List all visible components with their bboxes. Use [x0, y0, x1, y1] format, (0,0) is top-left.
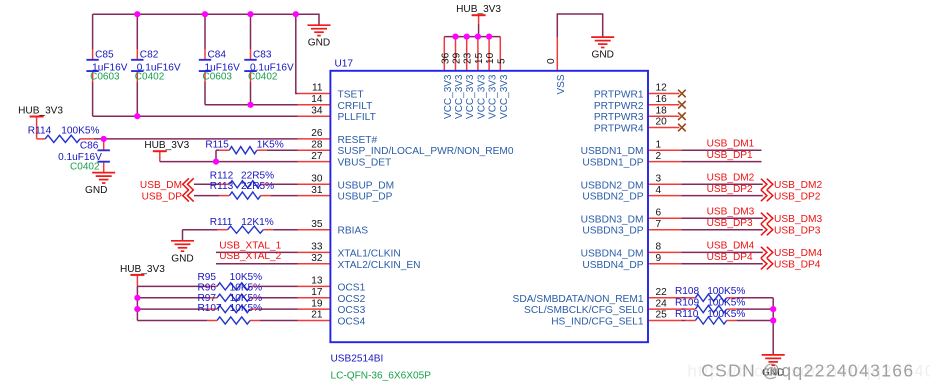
- svg-text:100K5%: 100K5%: [61, 125, 99, 136]
- svg-text:32: 32: [311, 253, 323, 264]
- svg-text:0: 0: [546, 58, 557, 64]
- svg-text:R108: R108: [675, 286, 700, 297]
- svg-text:CSDN @qq2224043166: CSDN @qq2224043166: [701, 360, 914, 380]
- svg-text:9: 9: [656, 253, 662, 264]
- svg-text:PRTPWR1: PRTPWR1: [594, 90, 644, 101]
- svg-text:C0402: C0402: [248, 71, 278, 82]
- svg-text:USBUP_DM: USBUP_DM: [338, 180, 395, 191]
- svg-text:C83: C83: [253, 49, 272, 60]
- svg-text:SDA/SMBDATA/NON_REM1: SDA/SMBDATA/NON_REM1: [513, 294, 644, 305]
- svg-text:HS_IND/CFG_SEL1: HS_IND/CFG_SEL1: [551, 317, 644, 328]
- svg-text:USB_DM: USB_DM: [140, 180, 182, 191]
- svg-text:C82: C82: [140, 49, 159, 60]
- svg-text:RESET#: RESET#: [338, 135, 378, 146]
- svg-text:GND: GND: [85, 185, 107, 196]
- svg-text:HUB_3V3: HUB_3V3: [144, 140, 189, 151]
- svg-text:16: 16: [656, 94, 668, 105]
- svg-text:34: 34: [311, 105, 323, 116]
- svg-text:100K5%: 100K5%: [707, 286, 745, 297]
- svg-text:R112: R112: [210, 170, 234, 181]
- svg-text:USBDN4_DM: USBDN4_DM: [581, 248, 644, 259]
- svg-text:PRTPWR4: PRTPWR4: [594, 124, 644, 135]
- svg-text:OCS3: OCS3: [338, 305, 366, 316]
- svg-text:27: 27: [311, 151, 323, 162]
- svg-text:24: 24: [656, 298, 668, 309]
- svg-text:LC-QFN-36_6X6X05P: LC-QFN-36_6X6X05P: [331, 371, 432, 382]
- svg-text:GND: GND: [308, 38, 330, 49]
- svg-text:CRFILT: CRFILT: [338, 101, 373, 112]
- svg-text:TSET: TSET: [338, 90, 364, 101]
- svg-text:OCS4: OCS4: [338, 317, 366, 328]
- svg-text:R110: R110: [675, 309, 699, 320]
- svg-text:R113: R113: [210, 181, 234, 192]
- svg-text:35: 35: [311, 219, 323, 230]
- svg-text:19: 19: [311, 298, 323, 309]
- svg-text:14: 14: [311, 94, 323, 105]
- svg-text:USBDN1_DP: USBDN1_DP: [582, 158, 643, 169]
- svg-text:USB_DP1: USB_DP1: [707, 150, 753, 161]
- svg-text:HUB_3V3: HUB_3V3: [18, 106, 63, 117]
- svg-text:HUB_3V3: HUB_3V3: [120, 264, 165, 275]
- svg-text:3: 3: [656, 174, 662, 185]
- svg-text:33: 33: [311, 242, 323, 253]
- svg-text:VBUS_DET: VBUS_DET: [338, 158, 392, 169]
- svg-text:GND: GND: [171, 253, 193, 264]
- svg-text:GND: GND: [591, 50, 613, 61]
- svg-text:C0402: C0402: [70, 161, 100, 172]
- svg-text:VCC_3V3: VCC_3V3: [488, 74, 499, 119]
- svg-text:R107: R107: [198, 303, 223, 314]
- svg-text:PRTPWR2: PRTPWR2: [594, 101, 644, 112]
- svg-text:USB_DP4: USB_DP4: [707, 252, 753, 263]
- svg-text:RBIAS: RBIAS: [338, 226, 369, 237]
- svg-text:C0402: C0402: [135, 71, 165, 82]
- svg-text:USB2514BI: USB2514BI: [331, 354, 384, 365]
- svg-text:USB_XTAL_2: USB_XTAL_2: [219, 251, 281, 262]
- svg-text:17: 17: [311, 287, 323, 298]
- svg-text:13: 13: [311, 276, 323, 287]
- svg-text:USB_DP4: USB_DP4: [774, 260, 821, 271]
- svg-text:22: 22: [656, 287, 668, 298]
- svg-text:USB_DM4: USB_DM4: [774, 248, 822, 259]
- svg-text:10K5%: 10K5%: [230, 272, 263, 283]
- svg-text:VCC_3V3: VCC_3V3: [465, 74, 476, 119]
- svg-text:OCS2: OCS2: [338, 294, 366, 305]
- svg-text:10: 10: [485, 52, 496, 64]
- svg-text:C85: C85: [95, 49, 114, 60]
- svg-text:USBUP_DP: USBUP_DP: [338, 192, 393, 203]
- svg-text:USB_DP3: USB_DP3: [774, 225, 821, 236]
- svg-text:VCC_3V3: VCC_3V3: [454, 74, 465, 119]
- svg-text:22R5%: 22R5%: [241, 170, 274, 181]
- svg-text:USBDN2_DP: USBDN2_DP: [582, 192, 643, 203]
- svg-text:23: 23: [463, 52, 474, 64]
- svg-text:USBDN3_DM: USBDN3_DM: [581, 214, 644, 225]
- svg-text:USBDN1_DM: USBDN1_DM: [581, 146, 644, 157]
- svg-text:PRTPWR3: PRTPWR3: [594, 112, 644, 123]
- svg-text:R109: R109: [675, 297, 700, 308]
- svg-text:10K5%: 10K5%: [230, 303, 263, 314]
- svg-text:12: 12: [656, 83, 668, 94]
- svg-text:15: 15: [474, 52, 485, 64]
- svg-text:25: 25: [656, 310, 668, 321]
- svg-text:USBDN4_DP: USBDN4_DP: [582, 260, 643, 271]
- svg-text:USB_DM2: USB_DM2: [707, 173, 755, 184]
- svg-text:VCC_3V3: VCC_3V3: [476, 74, 487, 119]
- svg-text:5: 5: [496, 58, 507, 64]
- svg-text:USB_DP3: USB_DP3: [707, 218, 753, 229]
- svg-text:USBDN3_DP: USBDN3_DP: [582, 226, 643, 237]
- svg-text:2: 2: [656, 151, 662, 162]
- svg-text:VCC_3V3: VCC_3V3: [499, 74, 510, 119]
- svg-text:30: 30: [311, 174, 323, 185]
- svg-text:18: 18: [656, 105, 668, 116]
- svg-text:R96: R96: [198, 283, 217, 294]
- svg-text:26: 26: [311, 128, 323, 139]
- svg-text:1K5%: 1K5%: [257, 140, 284, 151]
- svg-text:C0603: C0603: [90, 71, 120, 82]
- svg-text:VCC_3V3: VCC_3V3: [443, 74, 454, 119]
- svg-text:USB_DM1: USB_DM1: [707, 138, 755, 149]
- svg-text:USB_DM3: USB_DM3: [707, 207, 755, 218]
- svg-text:C86: C86: [80, 140, 99, 151]
- svg-text:USB_DP: USB_DP: [142, 191, 183, 202]
- svg-text:C0603: C0603: [203, 71, 233, 82]
- svg-text:U17: U17: [335, 59, 354, 70]
- svg-text:10K5%: 10K5%: [230, 283, 263, 294]
- svg-text:R115: R115: [205, 140, 229, 151]
- svg-text:R114: R114: [28, 125, 52, 136]
- svg-text:1: 1: [656, 139, 662, 150]
- svg-text:28: 28: [311, 139, 323, 150]
- svg-text:31: 31: [311, 185, 323, 196]
- svg-text:USB_DM3: USB_DM3: [774, 214, 822, 225]
- svg-text:USBDN2_DM: USBDN2_DM: [581, 180, 644, 191]
- svg-text:20: 20: [656, 117, 668, 128]
- svg-text:6: 6: [656, 208, 662, 219]
- svg-text:USB_DM4: USB_DM4: [707, 241, 755, 252]
- svg-text:29: 29: [452, 52, 463, 64]
- svg-text:4: 4: [656, 185, 662, 196]
- svg-text:8: 8: [656, 242, 662, 253]
- svg-text:100K5%: 100K5%: [707, 297, 745, 308]
- svg-text:OCS1: OCS1: [338, 282, 366, 293]
- svg-text:7: 7: [656, 219, 662, 230]
- svg-text:PLLFILT: PLLFILT: [338, 112, 376, 123]
- svg-text:SUSP_IND/LOCAL_PWR/NON_REM0: SUSP_IND/LOCAL_PWR/NON_REM0: [338, 146, 514, 157]
- svg-text:22R5%: 22R5%: [241, 181, 274, 192]
- svg-text:C84: C84: [208, 49, 227, 60]
- svg-text:VSS: VSS: [556, 74, 567, 94]
- svg-text:XTAL1/CLKIN: XTAL1/CLKIN: [338, 248, 401, 259]
- svg-text:USB_DM2: USB_DM2: [774, 180, 822, 191]
- svg-text:100K5%: 100K5%: [707, 309, 745, 320]
- svg-text:USB_DP2: USB_DP2: [774, 191, 821, 202]
- svg-text:HUB_3V3: HUB_3V3: [456, 4, 501, 15]
- svg-text:11: 11: [312, 83, 323, 94]
- svg-text:XTAL2/CLKIN_EN: XTAL2/CLKIN_EN: [338, 260, 421, 271]
- svg-text:SCL/SMBCLK/CFG_SEL0: SCL/SMBCLK/CFG_SEL0: [524, 305, 644, 316]
- svg-text:USB_DP2: USB_DP2: [707, 184, 753, 195]
- svg-text:12K1%: 12K1%: [241, 217, 274, 228]
- svg-text:R95: R95: [198, 272, 217, 283]
- svg-text:36: 36: [440, 52, 451, 64]
- svg-text:21: 21: [311, 310, 323, 321]
- svg-text:R111: R111: [210, 217, 233, 228]
